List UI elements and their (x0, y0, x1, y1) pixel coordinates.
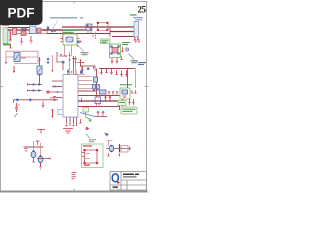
svg-text:PDF: PDF (8, 6, 35, 21)
svg-text:25: 25 (138, 5, 147, 15)
